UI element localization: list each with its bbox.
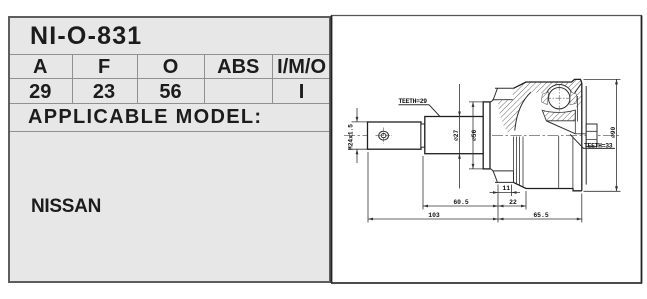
extension line x=498 — [497, 185, 499, 223]
extension line x=526 — [525, 191, 527, 210]
row line under header row — [10, 78, 329, 79]
boss bore lines — [586, 131, 597, 139]
inner race section — [542, 110, 575, 121]
header ABS — [204, 56, 272, 79]
boot ridge band bottom (external view) — [493, 171, 514, 183]
row line under APPLICABLE MODEL row — [10, 131, 329, 132]
APPLICABLE MODEL label — [28, 106, 338, 129]
ball track arc — [546, 84, 572, 93]
flare curve top — [490, 88, 498, 102]
dimension phi56 line — [472, 102, 474, 169]
row line under values row — [10, 103, 329, 104]
bell mouth inner edge top — [574, 83, 582, 95]
header O — [137, 56, 205, 79]
drawing panel border — [331, 16, 642, 284]
ball plane transition line bottom — [558, 136, 560, 189]
main horizontal center line — [344, 134, 620, 136]
ball bearing — [549, 88, 570, 109]
flare curve bottom — [490, 169, 498, 183]
parts table panel — [8, 16, 331, 283]
extension line x=423 — [422, 156, 424, 210]
cage section left — [541, 92, 548, 105]
extension line x=368 — [367, 152, 369, 223]
extension line x=581.8 — [581, 194, 583, 223]
dimension phi27 line — [459, 84, 461, 189]
rim transition line bottom — [572, 137, 574, 191]
dimension phi90 extension lines — [584, 79, 621, 191]
external transition lines bottom — [513, 137, 515, 183]
bell mouth inner face — [585, 86, 587, 185]
dimension M24x1.5 extension lines — [352, 122, 370, 149]
value 29 — [9, 81, 72, 104]
bell outline top — [514, 79, 582, 88]
boot ridge band top — [493, 88, 514, 100]
bore chamfer diagonal — [547, 121, 576, 134]
header I/M/O — [272, 56, 331, 79]
dimension 65.5 — [498, 218, 582, 220]
cage section right — [570, 92, 576, 105]
cotter pin hole outer — [379, 131, 389, 140]
column line x=71.5 — [72, 54, 73, 103]
value I — [272, 81, 331, 104]
dimension phi56 extension lines — [469, 102, 484, 169]
row line under title — [10, 54, 329, 55]
column line x=204.4 — [204, 54, 205, 103]
svg-text:11: 11 — [502, 185, 510, 192]
dimension 11 — [490, 192, 521, 194]
svg-text:⌀27: ⌀27 — [453, 130, 460, 141]
ball center cross dash — [545, 85, 574, 113]
column line x=136.6 — [137, 54, 138, 103]
title NI-O-831 — [30, 22, 330, 51]
value 23 — [72, 81, 137, 104]
svg-text:⌀90: ⌀90 — [610, 127, 617, 138]
column line x=272.2 — [272, 54, 273, 103]
end boss — [586, 124, 597, 147]
dimension M24x1.5 dimension line with outside arrows — [356, 108, 358, 163]
dimension 60.5 — [423, 205, 498, 207]
svg-text:⌀56: ⌀56 — [471, 130, 478, 141]
threaded stub shaft — [368, 122, 422, 149]
header F — [72, 56, 137, 79]
value 56 — [137, 81, 205, 104]
bell mouth face — [581, 83, 583, 191]
dimension 22 — [498, 205, 526, 207]
spline shaft TEETH=29 — [425, 117, 483, 154]
svg-text:103: 103 — [428, 212, 440, 219]
mouth wall hatch right — [574, 87, 582, 110]
bell outer race section hatch — [498, 79, 582, 132]
svg-text:22: 22 — [509, 199, 517, 206]
bell outline bottom (external view) — [514, 182, 582, 190]
svg-text:65.5: 65.5 — [533, 212, 549, 219]
undercut groove between thread and spline — [421, 124, 425, 147]
hole crosshair — [376, 128, 393, 145]
inner race right face — [574, 110, 576, 134]
NISSAN label — [31, 196, 331, 218]
cotter pin hole inner — [381, 134, 386, 138]
dimension phi90 line — [616, 79, 618, 191]
boot seat shoulder phi56 — [483, 102, 490, 169]
svg-text:TEETH=29: TEETH=29 — [399, 98, 428, 105]
dimension 103 — [368, 218, 498, 220]
extension line x=511.5 — [511, 185, 513, 197]
svg-text:M24x1.5: M24x1.5 — [347, 124, 354, 150]
bell inner sphere curve — [515, 92, 531, 130]
header A — [9, 56, 72, 79]
bore line — [575, 133, 586, 135]
svg-text:60.5: 60.5 — [453, 199, 469, 206]
